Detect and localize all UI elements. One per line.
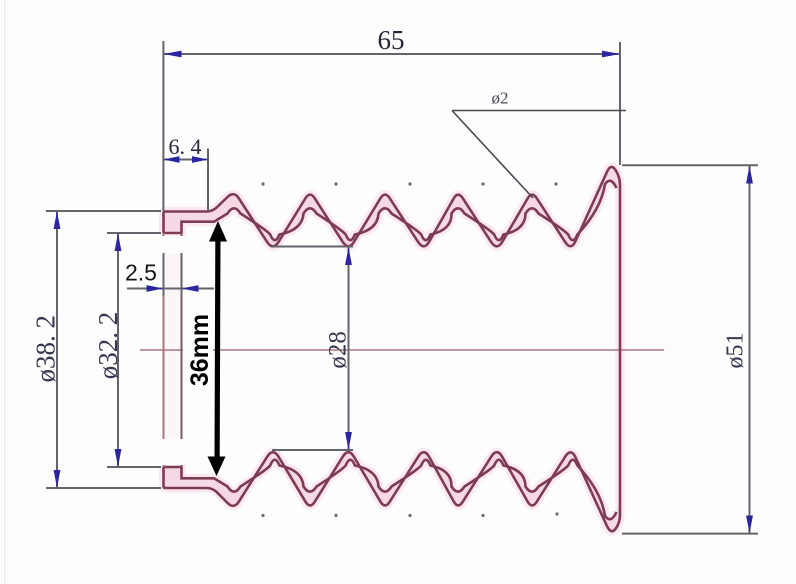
svg-text:ø2: ø2 bbox=[492, 89, 509, 108]
svg-text:ø38. 2: ø38. 2 bbox=[31, 315, 61, 383]
svg-text:2.5: 2.5 bbox=[125, 260, 157, 286]
svg-text:ø32. 2: ø32. 2 bbox=[93, 312, 123, 380]
svg-text:6. 4: 6. 4 bbox=[169, 134, 202, 159]
svg-text:36mm: 36mm bbox=[186, 314, 214, 386]
svg-text:ø28: ø28 bbox=[325, 331, 352, 369]
svg-text:ø51: ø51 bbox=[723, 333, 749, 369]
svg-text:65: 65 bbox=[378, 25, 405, 55]
